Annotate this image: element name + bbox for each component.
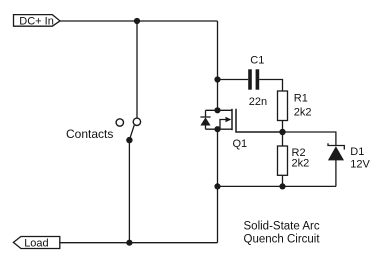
transistor Q1 gate plate	[236, 109, 283, 132]
node source rail left	[214, 183, 220, 189]
switch S1 contact left	[116, 119, 123, 126]
wire switch to bottom rail	[128, 140, 130, 243]
svg-text:Load: Load	[24, 238, 48, 250]
node C1 tap	[214, 76, 220, 82]
wire C1 right lead	[259, 80, 282, 92]
wire C1 left lead	[218, 79, 249, 81]
svg-text:2k2: 2k2	[294, 106, 312, 118]
wire gate node to D1	[283, 132, 336, 145]
node gate junction	[279, 129, 285, 135]
flag Load	[13, 237, 59, 249]
svg-text:C1: C1	[250, 54, 264, 66]
body diode cathode bar	[200, 116, 210, 118]
transistor Q1 source line	[206, 128, 233, 130]
transistor Q1 drain line	[206, 109, 233, 111]
switch S1 contact right	[133, 118, 140, 125]
wire lower node rail	[218, 185, 336, 187]
svg-text:D1: D1	[350, 146, 364, 158]
svg-text:2k2: 2k2	[292, 158, 310, 170]
node junction top	[134, 18, 140, 24]
capacitor C1 plate right	[256, 69, 260, 89]
flag DC+ In	[14, 15, 61, 27]
wire bottom rail	[60, 242, 218, 244]
diode D1 cathode bar	[328, 143, 344, 149]
resistor R2 body	[278, 146, 288, 175]
body diode top lead	[205, 110, 207, 117]
transistor Q1 channel	[231, 109, 233, 130]
wire right vertical drain feed	[217, 21, 219, 110]
node R2 bottom	[279, 183, 285, 189]
svg-text:DC+ In: DC+ In	[19, 15, 54, 27]
svg-text:Solid-State Arc: Solid-State Arc	[244, 221, 320, 233]
wire switch drop	[136, 21, 138, 118]
body diode triangle	[200, 117, 210, 125]
wire R1 bottom lead	[282, 121, 284, 133]
wire source vertical	[217, 129, 219, 243]
svg-text:Quench Circuit: Quench Circuit	[244, 234, 321, 246]
diode D1 triangle	[328, 146, 344, 160]
wire R2 bottom lead	[282, 175, 284, 186]
svg-text:12V: 12V	[350, 158, 370, 170]
switch S1 lever	[129, 125, 134, 140]
capacitor C1 plate left	[248, 69, 252, 89]
resistor R1 body	[278, 91, 288, 121]
wire R2 top lead	[282, 132, 284, 146]
wire top rail	[60, 20, 218, 22]
node Q1 source	[214, 126, 220, 132]
transistor Q1 substrate arrow	[220, 120, 227, 130]
wire D1 bottom lead	[335, 160, 337, 186]
svg-text:R1: R1	[294, 93, 308, 105]
svg-text:22n: 22n	[249, 96, 267, 108]
switch S1 pivot node	[126, 137, 132, 143]
body diode bottom lead	[205, 125, 207, 129]
node Q1 drain	[214, 107, 220, 113]
svg-text:Q1: Q1	[233, 138, 248, 150]
svg-text:Contacts: Contacts	[66, 127, 113, 141]
node junction bottom	[126, 240, 132, 246]
